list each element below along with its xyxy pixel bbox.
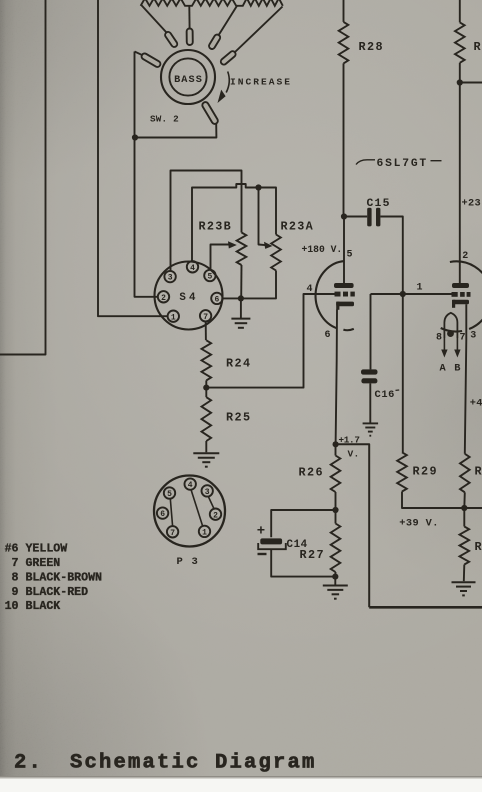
resistor R30 (top right, clipped)	[455, 0, 465, 83]
svg-text:R23A: R23A	[281, 220, 315, 234]
S4 pin 1	[168, 311, 179, 323]
wire R24 bottom to junction	[205, 380, 207, 387]
svg-text:#6 YELLOW: #6 YELLOW	[5, 542, 68, 555]
junction R26/R27	[332, 507, 338, 513]
wire chain right end to right lug	[235, 7, 283, 53]
P3 pin 6	[157, 507, 168, 519]
U1b grid (dashes)	[452, 292, 471, 297]
P3 internal wire 5-7	[170, 499, 172, 527]
svg-text:INCREASE: INCREASE	[230, 77, 292, 88]
wire R26 bottom	[335, 492, 337, 524]
svg-text:9 BLACK-RED: 9 BLACK-RED	[5, 586, 89, 599]
svg-text:6: 6	[160, 510, 165, 519]
label pin 2 (U1b plate)	[462, 251, 468, 262]
wire R23A wiper arm	[259, 188, 273, 249]
label R23A	[281, 220, 315, 234]
svg-text:2: 2	[213, 511, 218, 520]
svg-text:8 BLACK-BROWN: 8 BLACK-BROWN	[5, 572, 102, 585]
S4 pin 6	[211, 293, 222, 305]
increase rotation arrow	[218, 72, 230, 104]
label S4	[179, 292, 198, 304]
junction coupling node	[400, 291, 406, 297]
label V.	[348, 449, 360, 460]
label pin 6 (U1a cathode)	[325, 330, 331, 341]
svg-text:7 GREEN: 7 GREEN	[5, 557, 61, 570]
svg-text:7: 7	[170, 529, 175, 538]
wire SW2 left lug to common	[135, 52, 143, 56]
wire chain tap to upper-right lug	[219, 6, 237, 35]
svg-text:2: 2	[462, 251, 468, 262]
svg-text:2: 2	[161, 294, 166, 303]
U1a grid (dashes)	[335, 292, 355, 297]
svg-text:1: 1	[171, 313, 176, 322]
svg-text:3: 3	[470, 331, 476, 342]
junction R27/C14 ground node	[332, 574, 338, 580]
junction SW2 common	[132, 134, 138, 140]
P3 internal wire 4-1	[191, 490, 202, 526]
wire color legend	[5, 542, 102, 613]
wire junction to R25	[205, 388, 207, 398]
wire node down to R29	[402, 294, 404, 452]
svg-text:1: 1	[202, 529, 207, 538]
wire R31 bottom to junction	[463, 492, 466, 508]
resistor R28	[339, 0, 349, 217]
label pin 1 (U1b grid)	[417, 283, 423, 294]
U1b filament	[444, 313, 457, 338]
resistor R23B	[237, 233, 247, 266]
svg-text:R27: R27	[300, 548, 325, 562]
svg-text:R3: R3	[475, 465, 482, 479]
wire junction to C14 top	[271, 510, 335, 537]
U1b plate	[452, 283, 469, 288]
label R30 (clipped)	[474, 40, 482, 54]
label C15	[367, 198, 391, 210]
SW2 lug right	[220, 50, 237, 66]
bottom white strip	[0, 776, 482, 779]
P3 pin 7	[167, 526, 178, 538]
P3 pin 4	[185, 478, 196, 490]
label B	[454, 363, 460, 375]
P3 pin 1	[199, 526, 210, 538]
wire grid node to U1a grid	[206, 294, 334, 388]
wire chain tap to top lug	[188, 6, 190, 29]
S4 pin 2	[158, 291, 169, 303]
label +39 V.	[399, 518, 438, 530]
SW2 lug top	[187, 28, 193, 45]
P3 pin 5	[164, 487, 175, 499]
label BASS	[174, 75, 203, 86]
wire S4 pin7 down to R24	[205, 322, 207, 341]
svg-text:B: B	[454, 363, 460, 375]
filament center dot	[447, 330, 454, 337]
label pin 5 (U1a plate)	[347, 250, 353, 261]
svg-text:+4: +4	[470, 398, 482, 410]
SW2 lug upper-left	[164, 31, 178, 48]
wire R23B bottom to junction	[240, 265, 242, 298]
junction R23A feed	[255, 184, 261, 190]
svg-text:C16: C16	[375, 389, 396, 401]
U1a plate	[334, 217, 354, 289]
label C14 minus	[258, 553, 267, 555]
svg-text:7: 7	[460, 333, 466, 344]
ground under R25	[193, 453, 219, 467]
svg-text:4: 4	[307, 284, 313, 295]
wire left bus A	[0, 0, 46, 355]
U1b cathode	[452, 300, 469, 308]
label P 3	[177, 556, 200, 568]
label R32 (clipped)	[475, 540, 482, 554]
label C14	[287, 539, 308, 551]
arrow to A	[441, 338, 447, 358]
svg-text:5: 5	[167, 490, 172, 499]
svg-text:R29: R29	[413, 465, 438, 479]
P3 internal wire 3-2	[208, 497, 214, 509]
label C16	[375, 389, 400, 401]
wire plate feed to right edge	[460, 82, 482, 84]
resistor R32	[460, 508, 470, 565]
label A	[440, 363, 447, 375]
wire bottom rail	[369, 606, 482, 609]
svg-text:8: 8	[436, 333, 442, 344]
label R24	[226, 357, 251, 371]
svg-text:Schematic Diagram: Schematic Diagram	[70, 752, 317, 775]
svg-text:+23: +23	[462, 198, 481, 210]
label R29	[413, 465, 438, 479]
wire +39V rail to right edge	[464, 507, 482, 509]
S4 pin 4	[187, 261, 198, 273]
svg-text:C15: C15	[367, 198, 391, 210]
svg-text:R3: R3	[474, 40, 482, 54]
label +45 (clipped)	[470, 398, 482, 410]
wire SW2 common to S4 pin 2	[135, 52, 159, 297]
svg-text:10 BLACK: 10 BLACK	[5, 600, 61, 613]
svg-text:4: 4	[188, 481, 193, 490]
label R26	[299, 466, 324, 480]
tube socket S4 outline	[155, 262, 223, 330]
rotary switch SW2 inner circle	[169, 58, 206, 95]
capacitor C14 (electrolytic)	[258, 538, 334, 576]
S4 pin 7	[200, 310, 211, 322]
svg-text:1: 1	[417, 283, 423, 294]
svg-text:A: A	[440, 363, 447, 375]
R23B wiper arrowhead	[228, 241, 237, 248]
wire U1b cathode down (pin 3) to R31	[465, 304, 467, 454]
S4 pin 5	[204, 270, 215, 282]
wire +1.7 node right and down to bottom rail	[336, 444, 370, 607]
svg-text:6: 6	[325, 330, 331, 341]
label SW.2	[150, 114, 179, 125]
wire R23A bottom to junction	[241, 271, 276, 299]
svg-text:+180 V.: +180 V.	[302, 244, 343, 255]
svg-text:3: 3	[205, 488, 210, 497]
junction +1.7V node	[333, 441, 339, 447]
svg-text:3: 3	[168, 274, 173, 283]
wire U1a cathode down to +1.7V node	[336, 310, 337, 445]
label +230 (clipped)	[462, 198, 481, 210]
SW2 lug left	[141, 52, 162, 68]
label R23B	[199, 220, 233, 234]
label R25	[226, 411, 251, 425]
label C14 plus	[257, 524, 265, 540]
resistor R31	[460, 454, 470, 493]
capacitor C16	[361, 294, 378, 423]
svg-text:2.: 2.	[14, 752, 43, 775]
SW2 lug upper-right	[208, 33, 221, 50]
junction plate feed	[457, 79, 463, 85]
wire R27 bottom	[334, 572, 336, 577]
resistor R26	[331, 444, 341, 492]
label +1.7	[339, 435, 360, 446]
ground under R23 node	[231, 298, 250, 327]
resistor chain (tone ladder, top)	[141, 0, 283, 6]
label 6SL7GT	[356, 158, 442, 170]
resistor R23A	[271, 235, 281, 271]
label pin 8	[436, 333, 442, 344]
wire chain left end to lug	[141, 5, 167, 33]
tube U1a envelope arc	[316, 261, 354, 330]
tube U1b envelope arc	[441, 261, 482, 331]
svg-text:6: 6	[214, 296, 219, 305]
plug P3 outline	[154, 476, 225, 547]
junction R24/R25 grid node	[203, 385, 209, 391]
wire S4 pin5 up to R23B wiper	[211, 245, 230, 270]
svg-text:R28: R28	[359, 40, 384, 54]
resistor R25	[202, 397, 212, 441]
svg-text:4: 4	[190, 264, 195, 273]
wire S4 pin3 up over to R23B top	[171, 171, 242, 272]
svg-text:+39 V.: +39 V.	[399, 518, 438, 530]
SW2 wiper lug	[201, 101, 219, 125]
rotary switch SW2 body (outer ring)	[161, 50, 215, 104]
wire left bus B to S4 pin 1	[98, 0, 168, 316]
S4 pin 3	[164, 271, 175, 283]
ground under R27	[323, 577, 348, 599]
svg-text:BASS: BASS	[174, 75, 203, 86]
resistor R24	[202, 340, 212, 380]
wire plate feed down to U1b plate	[459, 83, 461, 284]
svg-text:R26: R26	[299, 466, 324, 480]
svg-text:SW. 2: SW. 2	[150, 114, 179, 125]
label R31 (clipped)	[475, 465, 482, 479]
wire junction to R23A top	[259, 188, 277, 235]
resistor R29	[397, 452, 407, 491]
P3 pin 3	[202, 485, 213, 497]
label INCREASE	[230, 77, 292, 88]
ground bottom right	[452, 582, 476, 595]
junction R28/C15/plate	[341, 213, 347, 219]
svg-text:R23B: R23B	[199, 220, 233, 234]
label pin 4 (U1a grid)	[307, 284, 313, 295]
wire SW2 wiper down-left to junction	[135, 123, 216, 138]
wire S4 pin6 to junction	[223, 297, 241, 299]
capacitor C15	[344, 208, 403, 294]
svg-text:7: 7	[203, 313, 208, 322]
wire R29 bottom to +39V rail	[402, 492, 464, 509]
svg-text:R25: R25	[226, 411, 251, 425]
P3 pin 2	[210, 509, 221, 521]
label R28	[359, 40, 384, 54]
label +180 V.	[302, 244, 343, 255]
svg-text:5: 5	[347, 250, 353, 261]
arrow to B	[454, 338, 460, 358]
svg-text:+: +	[257, 524, 265, 540]
label pin 7	[460, 333, 466, 344]
svg-text:5: 5	[207, 273, 212, 282]
resistor R27	[331, 524, 341, 573]
svg-text:6SL7GT: 6SL7GT	[377, 158, 428, 170]
junction +39V node	[461, 505, 467, 511]
label R27	[300, 548, 325, 562]
junction R23 ground node	[238, 295, 244, 301]
U1a cathode	[336, 302, 354, 310]
wire C15 node to grids	[371, 293, 452, 295]
label pin 3 (U1b cathode)	[470, 331, 476, 342]
caption 2. Schematic Diagram	[14, 752, 317, 775]
svg-text:P 3: P 3	[177, 556, 200, 568]
ground under C16	[363, 423, 379, 435]
svg-text:S4: S4	[179, 292, 198, 304]
wire R25 bottom lead	[205, 441, 207, 452]
wire S4 pin4 up to junction (with hop)	[192, 184, 259, 261]
wire R32 bottom lead	[463, 565, 466, 582]
svg-text:R24: R24	[226, 357, 251, 371]
svg-text:V.: V.	[348, 449, 360, 460]
svg-text:R3: R3	[475, 540, 482, 554]
